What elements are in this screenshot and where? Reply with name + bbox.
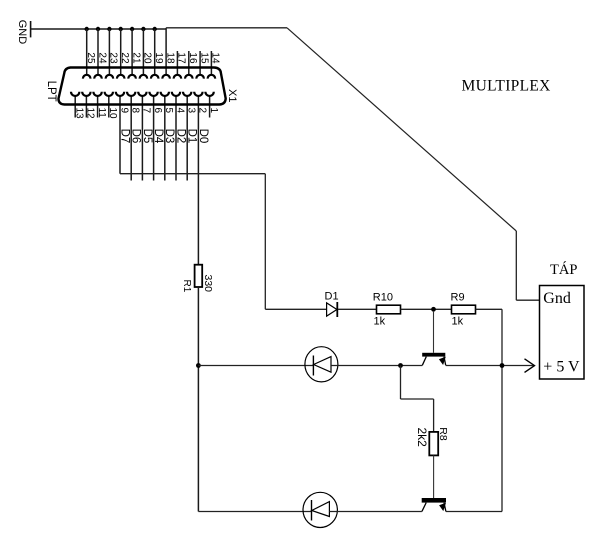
junction dot pin 24 to GND: [96, 27, 100, 31]
GND terminal tick: [30, 21, 32, 37]
svg-text:D1: D1: [186, 129, 198, 144]
wire LED1 to Q1: [331, 365, 422, 367]
X1 designator: [226, 89, 238, 102]
svg-text:D2: D2: [174, 129, 186, 144]
svg-text:9: 9: [118, 108, 129, 114]
pin 4: [172, 92, 186, 181]
svg-text:12: 12: [85, 108, 96, 120]
svg-text:TÁP: TÁP: [550, 261, 577, 278]
pin 8: [127, 92, 141, 181]
pin 14: [208, 51, 221, 79]
net label D3: [163, 129, 175, 144]
pin 22: [117, 29, 130, 79]
svg-text:D5: D5: [141, 129, 153, 144]
svg-text:D1: D1: [325, 290, 339, 302]
net label D1: [186, 129, 198, 144]
pin 21: [128, 29, 141, 79]
pin 24: [94, 29, 107, 79]
pin 15: [196, 51, 209, 79]
resistor R10 1k: [373, 291, 401, 327]
LED LED2: [303, 492, 337, 527]
net label D4: [152, 129, 164, 144]
svg-text:1: 1: [208, 108, 219, 114]
wire to LED1: [198, 365, 313, 367]
junction dot pin 20 to GND: [141, 27, 145, 31]
net label D5: [141, 129, 153, 144]
pin 10: [105, 92, 119, 119]
pin 20: [140, 29, 153, 79]
GND net label: [16, 20, 28, 45]
svg-text:23: 23: [108, 52, 119, 64]
wire R10 to R9: [401, 308, 452, 310]
LED LED1: [305, 347, 338, 382]
resistor R9 1k: [451, 291, 476, 327]
pin 9: [116, 92, 130, 174]
net label D0: [197, 129, 209, 144]
wire bottom left rail: [198, 511, 311, 513]
net label D2: [174, 129, 186, 144]
svg-text:11: 11: [96, 108, 107, 119]
svg-text:14: 14: [210, 52, 221, 64]
svg-text:Gnd: Gnd: [543, 290, 571, 307]
wire to diode D1: [265, 308, 326, 310]
supply box TAP: [540, 286, 585, 380]
svg-text:8: 8: [130, 108, 141, 114]
svg-text:D4: D4: [152, 129, 164, 144]
svg-text:D0: D0: [197, 129, 209, 144]
svg-text:18: 18: [164, 52, 175, 64]
svg-text:X1: X1: [226, 89, 238, 102]
diode D1: [325, 290, 339, 317]
junction dot pin 25 to GND: [85, 27, 89, 31]
svg-text:25: 25: [85, 52, 96, 64]
svg-text:330: 330: [202, 275, 214, 293]
svg-text:R8: R8: [437, 427, 449, 441]
wire D7 vertical run: [264, 174, 266, 310]
svg-text:GND: GND: [16, 20, 28, 45]
wire down to Gnd pin of supply: [515, 231, 517, 300]
pin 7: [138, 92, 152, 181]
svg-text:D3: D3: [163, 129, 175, 144]
junction dot LED1/R8 branch: [398, 363, 403, 368]
pin 13: [71, 92, 85, 119]
pin 6: [149, 92, 163, 181]
connector X1 shell (DB25 LPT): [58, 68, 225, 105]
junction dot pin 23 to GND: [107, 27, 111, 31]
wire LED2 to Q2 collector: [329, 511, 422, 513]
transistor Q2: [422, 498, 446, 512]
svg-text:2k2: 2k2: [415, 428, 429, 448]
svg-text:15: 15: [198, 52, 209, 64]
svg-text:24: 24: [96, 52, 107, 64]
wire +5V rail down: [501, 309, 503, 511]
wire R1 down to LED row: [197, 287, 199, 512]
svg-text:LPT: LPT: [45, 81, 57, 102]
wire R9 to +5V rail: [476, 308, 503, 310]
svg-text:D6: D6: [130, 129, 142, 144]
junction dot base node: [431, 307, 436, 312]
svg-text:16: 16: [187, 52, 198, 64]
transistor Q1: [422, 311, 446, 365]
pin 2: [194, 92, 208, 265]
svg-text:4: 4: [174, 108, 185, 114]
pin 5: [161, 92, 175, 181]
+5V arrow head: [525, 359, 535, 373]
pin 23: [106, 29, 119, 79]
wire branch down from LED1 row: [400, 366, 402, 400]
wire Q2 emitter to rail corner: [446, 511, 502, 513]
svg-text:17: 17: [176, 52, 187, 64]
svg-text:R1: R1: [181, 280, 192, 293]
svg-text:13: 13: [74, 108, 85, 120]
junction dot rail/+5V: [500, 363, 505, 368]
svg-text:3: 3: [186, 108, 197, 114]
wire D7 horizontal run: [120, 173, 265, 175]
svg-text:R10: R10: [373, 291, 393, 303]
wire into Gnd of supply box: [516, 299, 539, 301]
wire down to R8: [433, 399, 435, 432]
svg-text:6: 6: [152, 108, 163, 114]
pin 25: [83, 29, 96, 79]
resistor R1 330: [181, 265, 214, 293]
svg-text:5: 5: [163, 108, 174, 114]
resistor R8 2k2: [415, 427, 449, 455]
pin 11: [93, 92, 107, 119]
LPT label: [45, 81, 57, 102]
svg-text:19: 19: [153, 52, 164, 64]
wire Q1 emitter to rail: [446, 365, 535, 367]
junction dot R1/LED1: [196, 363, 201, 368]
wire R8 to Q2 base: [433, 455, 435, 498]
junction dot pin 19 to GND: [153, 27, 157, 31]
wire pin18 to top: [166, 27, 287, 29]
svg-text:1k: 1k: [374, 316, 386, 328]
svg-text:20: 20: [142, 52, 153, 64]
svg-text:R9: R9: [451, 291, 465, 303]
junction dot pin 22 to GND: [119, 27, 123, 31]
wire branch jog right: [401, 398, 434, 400]
svg-text:7: 7: [141, 108, 152, 114]
pin 18: [162, 28, 175, 79]
wire D1 to R10: [338, 308, 377, 310]
svg-text:+ 5 V: + 5 V: [543, 359, 580, 376]
net label D7: [118, 129, 130, 144]
pin 12: [82, 92, 96, 119]
svg-text:D7: D7: [118, 129, 130, 144]
svg-text:22: 22: [119, 52, 130, 64]
pin 17: [174, 51, 187, 79]
net label D6: [130, 129, 142, 144]
svg-text:1k: 1k: [452, 316, 464, 328]
svg-text:2: 2: [197, 108, 208, 114]
wire GND bus: [31, 28, 167, 30]
svg-text:10: 10: [107, 108, 118, 120]
pin 19: [151, 29, 164, 79]
wire diagonal to supply box: [287, 28, 516, 231]
pin 16: [185, 51, 198, 79]
svg-text:MULTIPLEX: MULTIPLEX: [462, 77, 551, 94]
pin 1: [205, 92, 219, 118]
svg-text:21: 21: [130, 52, 141, 64]
pin 3: [183, 92, 197, 181]
junction dot pin 21 to GND: [130, 27, 134, 31]
